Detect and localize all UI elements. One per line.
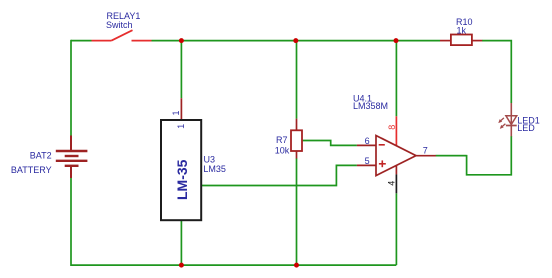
wire left rail vertical top (corner to battery) — [70, 40, 72, 136]
wire R7 wiper to op-amp pin6 — [302, 141, 357, 146]
svg-text:LM35: LM35 — [203, 164, 226, 174]
LED1 emission arrow 1 — [498, 118, 504, 123]
resistor R10 body — [451, 35, 472, 46]
wire op-amp pin7 output — [436, 155, 467, 157]
wire top rail from R10 to right corner — [482, 41, 511, 103]
wire R7 bottom vertical to bottom rail — [296, 158, 298, 265]
svg-text:BAT2: BAT2 — [30, 151, 52, 161]
op-amp pin5 stub — [357, 164, 376, 166]
op-amp pin7 stub — [416, 155, 436, 157]
junction top rail at pin8 — [394, 38, 399, 43]
wire LED cathode down to output jog — [436, 136, 512, 175]
wire op-amp pin8 from top rail — [395, 41, 397, 117]
svg-text:4: 4 — [387, 181, 397, 186]
wire op-amp pin4 to bottom rail — [395, 193, 397, 265]
wire LM35 bottom to bottom rail — [180, 220, 182, 265]
svg-text:R7: R7 — [276, 135, 288, 145]
svg-text:LM358M: LM358M — [353, 101, 388, 111]
svg-text:1: 1 — [171, 110, 181, 115]
junction bottom rail at LM35 — [179, 263, 184, 268]
resistor R10 stubs — [440, 40, 452, 42]
svg-text:1: 1 — [176, 124, 186, 129]
battery BAT2 — [56, 136, 88, 179]
minus sign — [379, 144, 385, 146]
svg-text:5: 5 — [365, 156, 370, 166]
op-amp pin4 stub — [395, 165, 397, 174]
LED1 anode stub — [510, 103, 512, 116]
junction top rail at R7 — [293, 38, 298, 43]
svg-text:6: 6 — [365, 136, 370, 146]
op-amp pin8 stub — [395, 116, 397, 146]
switch RELAY1 — [92, 30, 152, 40]
LED1 cathode stub — [510, 126, 512, 137]
wire LM35 output to op-amp pin5 — [201, 165, 357, 185]
op-amp pin6 stub — [357, 144, 376, 146]
junction bottom rail at R7 — [294, 263, 299, 268]
wire top rail from switch to R10 — [152, 40, 441, 42]
wire left rail vertical bottom (battery to bottom rail) — [71, 178, 396, 266]
wire R7 top vertical from top rail — [296, 41, 298, 119]
plus sign — [379, 163, 386, 165]
svg-text:BATTERY: BATTERY — [11, 165, 52, 175]
junction top rail at LM35 — [179, 38, 184, 43]
wire top-left from left rail to switch — [71, 40, 92, 42]
svg-text:1k: 1k — [457, 25, 467, 35]
svg-text:U3: U3 — [204, 155, 216, 165]
resistor R7 body — [291, 130, 302, 151]
wire LM35 pin1 vertical from top rail — [180, 41, 182, 99]
svg-text:LED: LED — [517, 123, 535, 133]
op-amp U4.1 triangle — [376, 136, 416, 176]
LED1 emission arrow 2 — [500, 124, 506, 129]
LM35 pin1 stub — [180, 98, 182, 120]
resistor R7 stubs — [296, 119, 298, 131]
svg-text:8: 8 — [387, 125, 397, 130]
svg-text:Switch: Switch — [106, 20, 133, 30]
LED1 cathode bar — [506, 125, 517, 127]
svg-text:7: 7 — [423, 146, 428, 156]
LED1 anode line through triangle — [510, 116, 512, 126]
LED1 triangle — [506, 116, 517, 125]
svg-text:10k: 10k — [275, 145, 290, 155]
LM35 box U3 — [161, 120, 201, 220]
svg-text:LM-35: LM-35 — [174, 159, 190, 200]
